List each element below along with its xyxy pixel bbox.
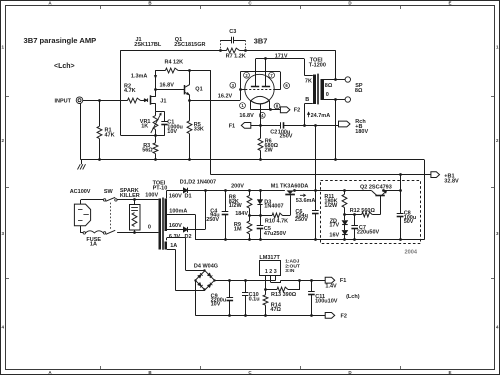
svg-text:250V: 250V [280,134,293,140]
svg-text:E: E [448,370,451,375]
svg-text:R7 1.2K: R7 1.2K [226,54,246,60]
svg-text:10V: 10V [167,129,177,135]
svg-text:3:IN: 3:IN [285,268,295,274]
svg-text:100V: 100V [145,193,158,199]
svg-text:32.8V: 32.8V [444,178,459,184]
svg-text:184V: 184V [235,211,248,217]
svg-text:7K: 7K [305,78,312,84]
svg-text:SW: SW [104,189,114,195]
svg-text:PT-10: PT-10 [153,185,168,191]
svg-text:0: 0 [148,225,151,231]
svg-text:200V: 200V [231,183,244,189]
svg-text:47K: 47K [105,133,115,139]
svg-text:0.1u: 0.1u [249,296,260,302]
svg-text:T-1200: T-1200 [309,62,326,68]
svg-text:8Ω: 8Ω [355,88,363,94]
svg-text:180V: 180V [355,129,368,135]
svg-text:F1: F1 [340,278,346,284]
svg-text:47u250V: 47u250V [264,231,287,237]
svg-text:2004: 2004 [405,249,418,255]
svg-text:R13 390Ω: R13 390Ω [271,292,297,298]
svg-text:1K: 1K [141,124,148,130]
svg-text:LM317T: LM317T [259,255,280,261]
svg-text:1A: 1A [90,242,97,248]
svg-text:1.4V: 1.4V [325,284,337,290]
svg-text:16V: 16V [329,233,339,239]
svg-text:3B7 parasingle AMP: 3B7 parasingle AMP [24,36,97,45]
svg-text:2W: 2W [265,147,274,153]
svg-text:INPUT: INPUT [55,98,72,104]
svg-text:17V: 17V [329,223,339,229]
svg-text:16.8V: 16.8V [160,83,175,89]
svg-text:1M: 1M [234,226,242,232]
svg-text:C3: C3 [229,29,236,35]
svg-text:1N4007: 1N4007 [264,204,283,210]
svg-text:2SK117BL: 2SK117BL [134,42,162,48]
svg-text:3B7: 3B7 [254,37,268,46]
svg-text:C2: C2 [270,129,277,135]
svg-text:100u10V: 100u10V [315,298,338,304]
svg-text:Q1: Q1 [195,87,202,93]
svg-text:AC100V: AC100V [70,189,91,195]
svg-text:250V: 250V [206,217,219,223]
svg-text:Q2 2SC4793: Q2 2SC4793 [360,184,392,190]
svg-text:2SC1815GR: 2SC1815GR [174,42,205,48]
svg-text:100mA: 100mA [169,208,187,214]
svg-text:M1 TK3A60DA: M1 TK3A60DA [271,183,309,189]
svg-text:J1: J1 [160,98,166,104]
svg-text:1.3mA: 1.3mA [131,73,148,79]
svg-text:8Ω: 8Ω [325,83,333,89]
svg-text:171V: 171V [275,53,288,59]
svg-text:(Lch): (Lch) [346,294,360,300]
svg-text:E: E [448,1,451,6]
svg-text:R4 12K: R4 12K [165,59,184,65]
svg-text:160V: 160V [169,194,182,200]
svg-text:24.7mA: 24.7mA [311,113,331,119]
svg-text:53.6mA: 53.6mA [296,198,316,204]
svg-text:F2: F2 [294,108,300,114]
svg-text:R12 560Ω: R12 560Ω [350,208,376,214]
svg-text:33K: 33K [194,127,204,133]
svg-text:B: B [305,97,309,103]
svg-text:250V: 250V [295,217,308,223]
svg-text:1 2 3: 1 2 3 [265,269,277,275]
svg-text:47Ω: 47Ω [270,307,281,313]
svg-text:160V: 160V [169,223,182,229]
svg-text:56Ω: 56Ω [142,147,153,153]
svg-text:D4 W04G: D4 W04G [194,263,218,269]
svg-text:D1,D2 1N4007: D1,D2 1N4007 [180,179,216,185]
svg-text:4.7K: 4.7K [124,88,136,94]
svg-text:KILLER: KILLER [120,193,140,199]
svg-text:1A: 1A [170,243,177,249]
svg-text:D1: D1 [185,194,192,200]
svg-text:<Lch>: <Lch> [54,63,75,70]
svg-text:R10 4.7K: R10 4.7K [265,218,288,224]
svg-text:10V: 10V [211,302,221,308]
svg-text:0: 0 [326,92,329,98]
svg-text:220u50V: 220u50V [357,230,380,236]
svg-text:F2: F2 [341,313,347,319]
svg-text:16.8V: 16.8V [239,113,254,119]
svg-text:50V: 50V [404,219,414,225]
svg-text:16.2V: 16.2V [218,94,233,100]
svg-text:1/2W: 1/2W [229,203,243,209]
svg-text:F1: F1 [229,124,235,130]
svg-text:1/2W: 1/2W [324,203,338,209]
